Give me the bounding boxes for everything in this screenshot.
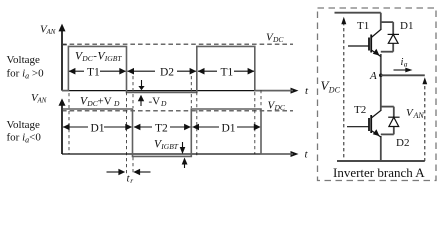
svg-text:A: A — [369, 70, 377, 82]
label Voltage for ia>0 — [7, 54, 45, 81]
interval arrow D2 (top) — [127, 68, 196, 75]
dashed vertical guide at x=191.3 (top part) — [190, 76, 192, 108]
svg-text:Voltage: Voltage — [7, 119, 41, 131]
svg-text:DC: DC — [274, 103, 286, 112]
t_r arrows — [107, 169, 151, 176]
dashed vertical guide at x=254.8 (bottom part) — [254, 92, 256, 154]
V_AN vertical axis (top plot) — [59, 24, 66, 91]
svg-text:D1: D1 — [222, 123, 236, 135]
down arrow to -V_D level — [138, 80, 144, 90]
V_AN dashed arrow line — [422, 77, 427, 161]
interval arrow D1 (second, bottom) — [192, 124, 260, 131]
main vertical wire (collector side T1) — [380, 13, 382, 30]
V_DC dashed arrow line — [341, 17, 346, 161]
top wire — [335, 12, 381, 14]
svg-text:DC: DC — [328, 86, 341, 95]
t axis (top plot) — [62, 88, 299, 94]
up arrow below V_IGBT level — [182, 158, 188, 169]
dashed vertical guide at x=196.8 (bottom part) — [196, 92, 198, 156]
waveform (bottom plot, grey) — [63, 109, 293, 156]
svg-text:AN: AN — [46, 28, 56, 36]
svg-text:T2: T2 — [354, 104, 366, 116]
dashed vertical guide at x=126.5 (below top fall) — [126, 92, 128, 175]
dashed vertical guide at x=133 (top part) — [132, 76, 134, 108]
svg-text:D: D — [160, 99, 167, 108]
interval arrow T1 (second, top) — [198, 68, 255, 75]
svg-text:D1: D1 — [91, 123, 105, 135]
svg-text:AN: AN — [413, 111, 425, 120]
svg-text:DC: DC — [272, 35, 284, 44]
diode D2 — [381, 107, 394, 135]
svg-text:DC: DC — [81, 54, 93, 63]
dashed V_DC level line (top plot) — [62, 43, 293, 45]
interval arrow D1 (first, bottom) — [63, 124, 132, 131]
dashed vertical guide at x=69 (bottom plot) — [68, 93, 70, 154]
svg-text:IGBT: IGBT — [104, 54, 122, 63]
svg-text:T1: T1 — [357, 20, 369, 32]
dashed border box — [318, 8, 437, 181]
main vertical wire (emitter T1 to node A) — [380, 54, 382, 111]
IGBT T1 — [348, 30, 381, 57]
dashed V_DC level line (bottom plot) — [62, 110, 293, 112]
svg-text:D2: D2 — [160, 67, 174, 79]
T1 emitter arrowhead — [373, 49, 380, 56]
svg-text:+V: +V — [98, 96, 112, 108]
V_DC tick on axis (top plot) — [62, 44, 67, 46]
dashed vertical guide at x=133 (below bottom fall) — [132, 157, 134, 175]
svg-text:-V: -V — [149, 96, 161, 108]
svg-text:D1: D1 — [400, 20, 413, 32]
svg-text:IGBT: IGBT — [160, 142, 178, 151]
up arrow to -V_D level — [138, 95, 144, 106]
interval arrow T1 (first, top) — [69, 68, 127, 75]
svg-text:T2: T2 — [155, 123, 168, 135]
wire node A to right — [381, 74, 425, 76]
svg-text:D2: D2 — [396, 137, 409, 149]
waveform (top plot, grey) — [62, 46, 293, 92]
V_AN vertical axis (bottom plot) — [59, 98, 66, 154]
svg-text:for ia<0: for ia<0 — [7, 132, 42, 145]
svg-text:T1: T1 — [221, 67, 234, 79]
IGBT T2 — [347, 111, 381, 138]
t axis (bottom plot) — [62, 151, 299, 157]
dashed vertical guide at x=261 (top part) — [260, 90, 262, 108]
interval arrow T2 (bottom) — [134, 124, 191, 131]
main vertical wire (T2 emitter to rail) — [380, 136, 382, 161]
svg-text:r: r — [130, 176, 133, 185]
svg-text:T1: T1 — [87, 67, 100, 79]
diode D1 — [381, 22, 393, 52]
bottom rail — [337, 160, 425, 162]
label Voltage for ia<0 — [7, 119, 42, 145]
svg-text:Inverter branch A: Inverter branch A — [333, 165, 425, 180]
node A — [379, 74, 383, 78]
svg-text:Voltage: Voltage — [7, 54, 41, 66]
T2 emitter arrowhead — [373, 129, 380, 136]
svg-text:a: a — [404, 60, 408, 69]
svg-text:D: D — [113, 99, 120, 108]
i_a arrow — [394, 68, 413, 73]
svg-text:AN: AN — [37, 97, 47, 105]
